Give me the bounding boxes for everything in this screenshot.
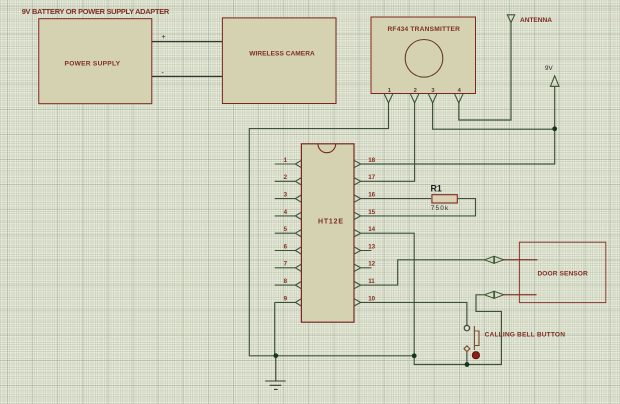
svg-text:11: 11 <box>368 278 375 285</box>
svg-text:ANTENNA: ANTENNA <box>520 17 552 24</box>
svg-text:6: 6 <box>284 243 288 250</box>
svg-text:14: 14 <box>368 226 375 233</box>
svg-text:15: 15 <box>368 209 375 216</box>
svg-text:5: 5 <box>284 226 288 233</box>
svg-text:3: 3 <box>284 192 288 199</box>
svg-text:18: 18 <box>368 157 375 164</box>
svg-text:4: 4 <box>284 209 288 216</box>
svg-text:RF434 TRANSMITTER: RF434 TRANSMITTER <box>387 26 460 33</box>
svg-text:2: 2 <box>414 88 417 94</box>
svg-text:17: 17 <box>368 174 375 181</box>
svg-text:2: 2 <box>284 174 288 181</box>
svg-text:1: 1 <box>284 157 288 164</box>
svg-text:9: 9 <box>284 295 288 302</box>
svg-text:+: + <box>162 34 166 41</box>
svg-text:DOOR SENSOR: DOOR SENSOR <box>537 271 588 278</box>
svg-text:13: 13 <box>368 243 375 250</box>
svg-text:9V BATTERY OR POWER SUPPLY ADA: 9V BATTERY OR POWER SUPPLY ADAPTER <box>22 7 170 16</box>
svg-text:-: - <box>162 70 165 77</box>
svg-text:10: 10 <box>368 295 375 302</box>
svg-text:8: 8 <box>284 278 288 285</box>
svg-text:16: 16 <box>368 192 375 199</box>
svg-text:R1: R1 <box>431 184 442 194</box>
svg-text:POWER SUPPLY: POWER SUPPLY <box>65 61 121 68</box>
svg-text:CALLING BELL BUTTON: CALLING BELL BUTTON <box>485 331 566 338</box>
svg-text:9V: 9V <box>545 65 553 72</box>
svg-text:750k: 750k <box>431 205 449 212</box>
svg-text:12: 12 <box>368 261 375 268</box>
svg-text:7: 7 <box>284 261 288 268</box>
svg-text:WIRELESS CAMERA: WIRELESS CAMERA <box>249 50 315 57</box>
svg-text:HT12E: HT12E <box>318 219 343 226</box>
